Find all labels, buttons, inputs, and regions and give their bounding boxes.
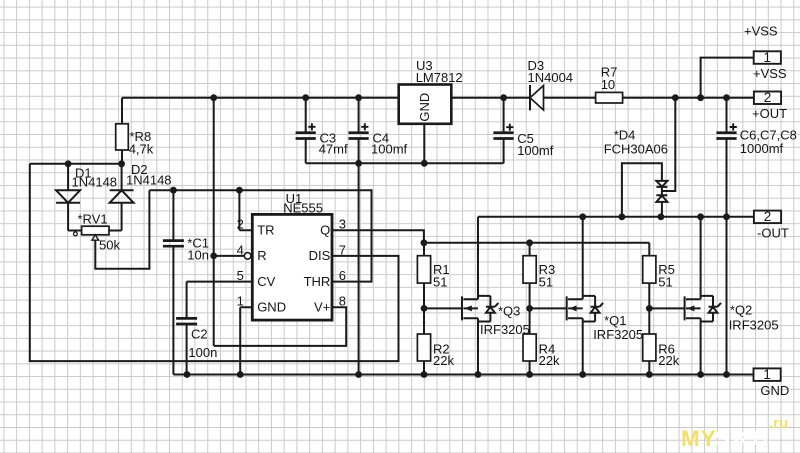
svg-text:1N4004: 1N4004: [528, 70, 574, 85]
svg-text:*Q2: *Q2: [730, 303, 752, 318]
svg-text:THR: THR: [304, 274, 331, 289]
svg-text:+OUT: +OUT: [752, 106, 787, 121]
svg-text:+VSS: +VSS: [753, 66, 787, 81]
svg-text:*D4: *D4: [614, 127, 636, 142]
svg-text:CV: CV: [257, 274, 275, 289]
svg-text:LM7812: LM7812: [416, 70, 463, 85]
svg-text:NE555: NE555: [283, 200, 323, 215]
svg-text:IRF3205: IRF3205: [593, 327, 643, 342]
svg-text:47mf: 47mf: [319, 141, 348, 156]
svg-text:1N4148: 1N4148: [72, 175, 118, 190]
svg-text:51: 51: [658, 274, 672, 289]
svg-text:FCH30A06: FCH30A06: [604, 141, 668, 156]
svg-text:8: 8: [339, 294, 346, 309]
svg-text:5: 5: [237, 268, 244, 283]
svg-text:MY: MY: [681, 426, 717, 451]
svg-text:100mf: 100mf: [371, 141, 408, 156]
svg-text:100mf: 100mf: [517, 143, 554, 158]
svg-text:2: 2: [764, 209, 772, 224]
svg-text:1N4148: 1N4148: [126, 173, 172, 188]
svg-text:-OUT: -OUT: [757, 225, 789, 240]
svg-text:10: 10: [601, 77, 615, 92]
svg-text:.ru: .ru: [769, 415, 788, 432]
svg-text:1000mf: 1000mf: [740, 141, 784, 156]
svg-text:GND: GND: [417, 93, 432, 122]
svg-text:22k: 22k: [433, 353, 454, 368]
svg-text:4,7k: 4,7k: [129, 141, 154, 156]
svg-text:IRF3205: IRF3205: [480, 322, 530, 337]
svg-text:*Q3: *Q3: [498, 304, 520, 319]
svg-text:SKU: SKU: [715, 426, 772, 451]
svg-text:R: R: [257, 248, 266, 263]
svg-text:1: 1: [763, 367, 771, 382]
svg-text:1: 1: [764, 50, 772, 65]
svg-text:IRF3205: IRF3205: [729, 317, 779, 332]
svg-text:GND: GND: [760, 383, 789, 398]
svg-text:DIS: DIS: [309, 248, 331, 263]
svg-text:*RV1: *RV1: [78, 212, 108, 227]
svg-text:50k: 50k: [99, 237, 120, 252]
svg-text:10n: 10n: [187, 248, 209, 263]
svg-text:7: 7: [339, 242, 346, 257]
svg-text:4: 4: [237, 242, 244, 257]
svg-text:2: 2: [237, 217, 244, 232]
svg-text:Q: Q: [320, 222, 330, 237]
svg-text:C2: C2: [191, 327, 208, 342]
svg-text:100n: 100n: [188, 345, 217, 360]
svg-text:V+: V+: [314, 300, 330, 315]
svg-text:GND: GND: [257, 300, 286, 315]
svg-text:6: 6: [339, 268, 346, 283]
svg-text:22k: 22k: [539, 353, 560, 368]
svg-text:TR: TR: [257, 222, 274, 237]
svg-text:3: 3: [339, 217, 346, 232]
svg-text:1: 1: [237, 294, 244, 309]
svg-text:+VSS: +VSS: [744, 24, 778, 39]
svg-text:51: 51: [539, 274, 553, 289]
svg-text:51: 51: [433, 274, 447, 289]
svg-text:2: 2: [764, 90, 772, 105]
svg-text:22k: 22k: [658, 353, 679, 368]
